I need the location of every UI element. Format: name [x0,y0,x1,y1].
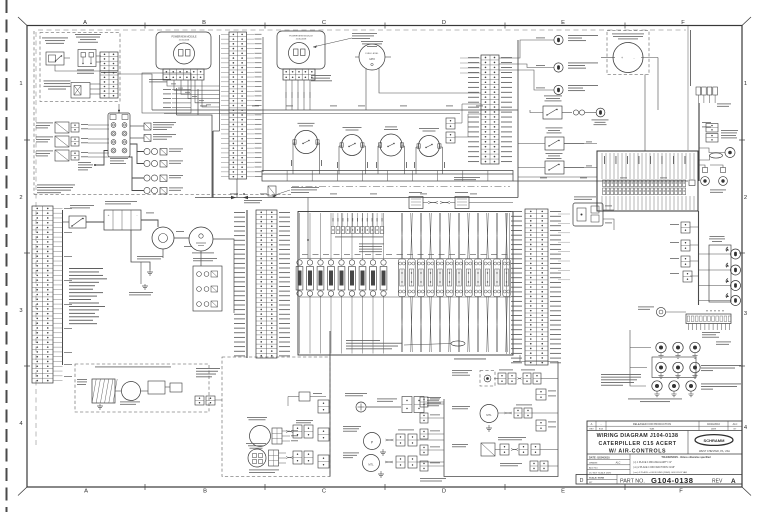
moved up connector A [530,461,538,471]
capsule W10 upper run [486,213,489,259]
powerview U1 connector [163,69,204,80]
inline fuse F3 [144,175,167,182]
harness note text [346,339,380,342]
svg-text:1: 1 [19,81,22,87]
powerview module U1 [156,32,211,69]
kit harness connector A1 [293,425,302,438]
powerview U2 wire labels [286,92,287,98]
trba alarm note [95,366,171,369]
svg-text:2106-0058: 2106-0058 [296,39,307,41]
twin panel lamp DS6 [719,168,728,186]
fuel level sender SND1 [364,433,381,450]
inner margin dashed border left [35,32,37,448]
volumetric adjustment pot label [44,80,71,83]
trba ground [97,404,103,409]
chassis ground stud GND1 [147,270,153,275]
panel lights switch S9 label [546,152,563,155]
optional trba alarm dashed box [75,364,209,412]
svg-text:C: C [322,20,326,26]
trba alarm hatched box B1 [92,379,117,403]
element K2 wires [309,213,311,260]
moved up connector B [540,461,548,471]
switch return collector [262,173,513,175]
clearance note text [601,373,641,376]
corner tick top-right [742,17,751,26]
riser connector RC2 [681,240,690,251]
ignition switch S3 wires [292,143,294,174]
feed connector F5 [420,461,428,471]
clearance lamp DS18 [669,381,679,397]
panel lamps label [710,189,726,192]
compressor hour meter dashed box [607,31,649,75]
dsub connector DB1 [409,197,423,209]
trimtab stub labels [605,205,612,208]
svg-text:A: A [731,478,736,485]
svg-text:D: D [580,478,584,484]
vga purp box B2 [481,443,495,456]
fuel level sender label [343,425,361,428]
amber hyd temp light DS3 [554,85,563,94]
moved up label [500,462,522,465]
six-way stereo block label [110,157,128,160]
alternator label [192,252,214,255]
svg-text:WAS: WAS [650,428,655,431]
cab riser rail [698,211,700,305]
kit harness label [296,419,313,422]
svg-text:ECN: ECN [599,429,604,431]
clearance lamp DS14 [656,362,666,378]
clearance lamp box outline [652,357,696,378]
pressure transducer T2 [144,135,151,142]
petit limiter note [249,469,279,472]
valve V2 connector [71,137,79,146]
photocell PC1 [656,307,665,316]
batteries BT1 [104,210,141,230]
compressor hour meter label [612,33,644,36]
trba switch S11 [148,381,165,394]
mast light lamp DS9 [731,281,741,291]
kit 24v wire [288,397,299,407]
instrument harness strip P1 [229,32,247,179]
centerline dash-dot [292,186,510,188]
feed connector F3 [420,429,428,439]
fuel level gauge G1 [359,44,385,70]
valve V3 connector [71,151,79,160]
corner tick bottom-right [742,487,751,496]
svg-text:G104-0138: G104-0138 [651,476,694,485]
grid ticks right [739,139,745,141]
svg-text:E: E [561,20,565,26]
continued note [345,392,367,395]
dsub twisted link [428,202,438,204]
key control label [149,78,171,81]
corner tick top-left [18,17,27,26]
strip P6 left labels [511,211,522,363]
svg-text:POWERVIEW MODULE: POWERVIEW MODULE [289,36,313,38]
velocity connector A [500,444,509,455]
svg-text:(.xxx) 3 PLACE ±.010 ROUND (: (.xxx) 3 PLACE ±.010 ROUND (280Ø) .005/.… [633,471,687,474]
bus riser x518 [517,40,519,198]
strip P1 left rail [219,35,221,131]
hall pressure wire [118,74,152,110]
amber check engine light DS2 [554,63,563,72]
capsule W5 lower run [438,297,441,353]
hyd light connector B [508,373,516,384]
svg-text:2: 2 [19,195,22,201]
fuse feed wires [130,144,144,152]
warning lamp wires [499,40,554,58]
harness capsule W7 [455,259,462,297]
svg-text:SCHRAMM: SCHRAMM [704,438,726,443]
wire harness label [702,331,720,334]
alternator wires [213,239,234,313]
velocity tail [540,449,558,451]
panel bus right segment [513,180,688,182]
solenoid valve V3 [55,150,69,161]
e-stop switch S5 label [385,126,397,129]
mast light lamp DS8 [731,265,741,275]
fo pump connector B [408,456,417,468]
mast lights switch S8 [545,137,564,150]
harness capsule W11 [493,259,500,297]
trailer socket connector J4 [686,314,731,330]
svg-text:GPIO: GPIO [369,59,375,61]
remote stop stubs [279,452,287,454]
increment-decrement switch S2 [78,50,96,67]
amphenol labels [427,396,441,399]
pressure transducer T2 label [153,133,176,136]
clearance lamp DS17 [652,381,662,397]
valve V1 connector [71,123,79,132]
panel gauge G2 [725,148,735,158]
strip P5 right stubs [53,208,63,380]
primer switch S6 wires [415,147,417,174]
main ignition bus [152,109,518,111]
remote stop connector [269,450,279,466]
battery ground wire [131,230,150,270]
kit edge connector 3 [318,455,329,468]
e-stop switch S5 [379,134,404,156]
capsule W2 upper run [410,213,413,259]
trba horn label [120,401,140,404]
band bottom rail [300,296,511,298]
svg-text:FUEL LEVEL: FUEL LEVEL [366,53,380,55]
svg-text:RELEASED FOR PRODUCTION: RELEASED FOR PRODUCTION [633,422,671,426]
amber check engine light label [568,62,598,65]
powerview module U2 [277,31,325,69]
strip P2 left labels [468,57,479,162]
key control box [142,73,191,113]
svg-text:REV: REV [712,478,723,484]
engine ecm pin identification table [69,268,107,324]
mast light lamp DS10 [731,296,741,306]
governor connector block J1 [100,52,118,98]
joystick compressor note [78,161,91,164]
capsule W1 upper run [400,213,403,259]
harness number label [716,341,731,344]
photocell wire [666,311,686,313]
alternator breaker label [193,257,217,260]
fuel sender twist [386,439,394,441]
svg-text:PART NO.: PART NO. [620,478,645,484]
chassis ground stud label [137,255,163,258]
lamp feed wires [699,165,705,168]
svg-text:-: - [137,213,138,217]
strip P1 left stubs [221,34,229,176]
starter switch S4 label [343,126,362,129]
strip P2 feed wires [460,57,481,59]
trba wires [115,390,121,392]
note pointer [404,344,451,346]
harness capsule W12 [503,259,510,297]
fo pump tail [417,461,444,463]
frame white labels [196,367,220,370]
fuel sender ground [380,449,386,455]
powerview U2 connector [283,69,315,80]
red stop engine light label [568,34,598,37]
twin unit label [721,129,738,132]
svg-text:F: F [681,20,685,26]
fuel sender connector B [408,434,417,446]
hyd light connector A [498,373,506,384]
capsule W10 lower run [486,297,489,353]
svg-text:1: 1 [744,81,747,87]
hyd light harness labels [499,369,513,372]
mast light lamp DS7 [731,249,741,259]
battery disconnect switch S10 label [70,204,94,207]
bus lifter xbox [268,186,276,196]
strip P5 stub labels [64,207,72,210]
kit box right edge [329,331,331,477]
trimtab assembly label [574,196,596,199]
hyd oil temp light label [452,369,472,372]
cab harness junction box J2 [597,151,698,211]
svg-text:3: 3 [744,311,747,317]
terminal cells row [262,171,513,182]
svg-text:MTL: MTL [486,413,492,417]
hyd light twist [518,378,522,380]
red foam light label [592,119,609,122]
amphenol connector A [402,397,412,413]
capsule W8 upper run [467,213,470,259]
trba horn H1 [122,382,141,401]
strip P6 feed wires [558,213,570,215]
grid ticks bottom [144,484,146,490]
relay-breaker element K1 [296,260,303,296]
dsub connector DB2 [455,197,469,209]
spare connector W1 labels [548,390,556,393]
strip P6 right labels [550,211,561,363]
capsule W12 upper run [505,213,508,259]
ignition switch S3 label [298,122,315,125]
svg-text:A: A [83,20,87,26]
relay-breaker element K5 [338,260,345,296]
harness extension strip P4 [256,210,277,358]
battery disconnect switch S10 [69,216,86,228]
junction feed wires [564,143,597,145]
harness capsule W8 [465,259,472,297]
remote control dashed kit box [222,357,330,477]
amphenol tail [424,403,444,405]
element K7 wires [362,213,364,260]
velocity converter label [498,436,526,439]
svg-text:CATERPILLER C15 ACERT: CATERPILLER C15 ACERT [599,441,677,447]
foam connector B [524,408,532,418]
svg-text:ALC: ALC [616,462,621,465]
svg-text:C: C [322,489,326,495]
foam fuse CB1 [573,110,578,115]
trimtab wires [603,209,614,211]
module feed wire [118,110,120,113]
inline fuse F4 [144,187,167,194]
2GA labels [176,230,184,233]
battery cable wires [63,221,70,223]
batteries label [105,200,137,203]
riser connector stubs [690,226,699,228]
fo pump connector A [396,456,405,468]
lighting group box [444,362,558,477]
central air-hyd harness box [298,212,513,356]
inner margin line right [687,26,689,150]
svg-text:D: D [442,489,446,495]
svg-text:2: 2 [744,195,747,201]
title block [587,421,742,484]
strip P4 left labels [234,212,245,356]
panel lights switch S9 [545,161,564,174]
foam tail [532,412,558,414]
harness capsule W5 [436,259,443,297]
foam pump motor label [452,405,470,408]
primer switch S6 label [419,127,439,130]
svg-text:DRAWN:: DRAWN: [589,462,598,465]
bus lifter pointer [272,190,290,196]
bus lifter note [291,186,319,189]
svg-text:WEST CHESTER, PA, USA: WEST CHESTER, PA, USA [699,450,730,453]
cable breakers note [359,243,384,246]
key control pin labels [163,88,171,91]
amber hyd temp light label [568,84,598,87]
e-stop switch S5 wires [377,146,379,174]
strip P5 right rail [62,210,64,365]
compressor hour meter M2 [613,43,643,73]
inline fuse F2 [144,160,167,167]
strain relief oval [451,341,465,346]
twin panel lamp DS5 [701,168,710,186]
spare connector W2 labels [548,421,556,424]
svg-text:(.xx) 2 PLACE ±.030 FRACTIO: (.xx) 2 PLACE ±.030 FRACTIONS ±1/16" [633,466,675,469]
solenoid valve V1 [55,122,69,133]
fuel sender harness label [398,429,414,432]
vga purp label [452,443,468,446]
strip P1 right rail [262,37,264,172]
svg-text:+: + [108,213,110,217]
capsule W1 lower run [400,297,403,353]
capsule W4 upper run [429,213,432,259]
splice symbol SP1 [356,402,366,412]
svg-text:REV: REV [589,429,594,431]
fuel sender connector A [396,434,405,446]
riser connector labels [670,223,679,226]
svg-text:B: B [202,20,206,26]
harness capsule W1 [398,259,405,297]
fuel sender tail [417,439,444,441]
capsule W5 upper run [438,213,441,259]
element K5 wires [341,213,343,260]
joystick wire [95,151,108,166]
wire number labels [200,106,685,195]
engine ECM connector strip P5 [32,206,53,383]
clearance lamp DS11 [656,342,666,358]
load selection switch label [42,37,68,40]
usb module stubs [282,430,290,432]
relay-breaker element K3 [317,260,324,296]
panel harness label [717,103,731,106]
junction box internal wires [602,153,694,179]
svg-text:-: - [633,56,634,60]
8GA label [146,212,154,215]
relay-breaker element K2 [307,260,314,296]
splice wire [366,406,401,408]
twin unit connector A [706,124,718,133]
starter motor M3 [152,227,174,249]
feed connector F4 [420,445,428,455]
valve V1 wires [81,123,88,126]
panel switch wires [518,167,545,169]
svg-text:E: E [561,489,565,495]
svg-text:SCALE: NONE: SCALE: NONE [589,476,605,479]
foam twist [504,412,512,414]
red foam light DS4 [596,108,605,117]
panel oval [710,153,723,158]
capsule W6 lower run [448,297,451,353]
inline fuse F1 [144,148,167,155]
clearance amber lamps label [701,383,741,386]
sheet size box [576,475,587,485]
clearance red lamps label [701,364,741,367]
mast lights junction box [709,245,731,302]
fuel level gauge label [361,40,383,43]
dsub labels [409,191,422,194]
relay-breaker element K4 [328,260,335,296]
foam switch wires [530,110,543,113]
amphenol connector B [414,397,424,413]
ecm ground wire [140,262,142,284]
spare connector W2 [536,420,546,431]
hall pressure label [101,71,117,74]
twin unit connector B [706,134,718,143]
hyd oil temp light DS20 [480,371,495,387]
relay-breaker element K7 [359,260,366,296]
panel feed wire [690,30,692,86]
riser connector RC3 [681,256,690,267]
ecm ground stud label [129,291,153,294]
photocell label [638,306,654,309]
strip P4 right labels [279,212,290,356]
riser connector RC4 [683,271,692,282]
increment-decrement switch label [75,33,101,36]
svg-text:DO NOT SCALE DWG: DO NOT SCALE DWG [589,471,612,474]
title block data rows [587,454,742,475]
powerview U2 drop wires [285,80,287,110]
solenoid valve V2 label [36,136,53,139]
spare connector W1 [536,389,546,400]
schramm logo [695,435,733,453]
capsule W11 lower run [495,297,498,353]
fo pump motor M4 [363,455,380,472]
install run note [352,32,377,35]
grid ticks left [24,139,30,141]
svg-text:2103-0058: 2103-0058 [179,40,190,42]
